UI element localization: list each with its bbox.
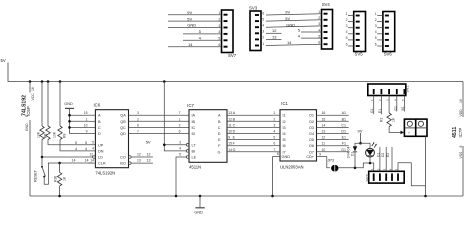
svg-text:8: 8 (277, 152, 279, 156)
IC7 BI pin 4 bubble (186, 150, 189, 153)
svg-text:9V: 9V (187, 10, 192, 15)
svg-text:ID: ID (192, 132, 196, 136)
svg-text:IC6P: IC6P (26, 106, 31, 116)
wire IC6 Q3 to IC7 input (129, 114, 190, 116)
svg-text:4: 4 (92, 147, 94, 151)
svg-text:3: 3 (375, 24, 377, 28)
junction CLR net / R36 top (58, 162, 61, 165)
svg-text:D1: D1 (341, 130, 346, 134)
power symbol IC6P (74LS192 supply) VCC pin 16 (29, 82, 31, 93)
svg-text:14: 14 (72, 159, 76, 163)
svg-text:O1: O1 (309, 114, 314, 118)
svg-text:2: 2 (137, 117, 139, 121)
IC6 LD pin 11 bubble (93, 156, 96, 159)
ground symbol bottom center (199, 195, 202, 198)
wire IC7 LE pin 5 to GND rail (186, 156, 189, 159)
svg-text:15: 15 (228, 142, 232, 146)
wire 9V down (360, 133, 362, 143)
svg-text:4: 4 (179, 147, 181, 151)
svg-text:4: 4 (273, 130, 275, 134)
svg-text:2: 2 (375, 18, 377, 22)
svg-text:D1: D1 (351, 152, 355, 156)
svg-text:13: 13 (147, 159, 151, 163)
svg-text:R2: R2 (379, 118, 383, 122)
wire net C IC7 pin 11 to IC1 pin 3 (227, 126, 273, 128)
svg-text:5: 5 (375, 36, 377, 40)
svg-text:B1: B1 (342, 117, 346, 121)
svg-text:VSS: VSS (459, 151, 463, 159)
svg-text:9V: 9V (285, 10, 290, 15)
wire SV1 pin5 net B1 (403, 96, 405, 112)
svg-text:5: 5 (346, 36, 348, 40)
svg-text:O6: O6 (309, 144, 314, 148)
svg-text:F1: F1 (342, 142, 346, 146)
svg-text:I6: I6 (283, 144, 286, 148)
wire stub net 13 at SV3 pin2 (266, 38, 282, 40)
connector SV4 (322, 10, 333, 50)
svg-text:14: 14 (287, 40, 292, 45)
svg-text:BI: BI (192, 149, 196, 153)
IC6 pin 10 stub (88, 126, 95, 128)
IC6 pin 1 stub (88, 120, 95, 122)
svg-text:6: 6 (262, 11, 264, 15)
svg-text:10: 10 (228, 130, 232, 134)
svg-text:11: 11 (228, 123, 232, 127)
svg-text:2: 2 (273, 117, 275, 121)
svg-text:12: 12 (147, 153, 151, 157)
svg-text:A1: A1 (342, 111, 346, 115)
svg-text:16: 16 (322, 111, 326, 115)
svg-text:11: 11 (322, 142, 326, 146)
svg-text:14: 14 (85, 159, 89, 163)
svg-text:4: 4 (75, 147, 77, 151)
wire stub net 12 from IC6 CO pin 12 (129, 156, 132, 159)
wire net B1 from IC1 pin 15 (317, 120, 349, 122)
wire 5V rail (8, 63, 463, 82)
svg-text:C: C (98, 126, 101, 130)
svg-text:6: 6 (346, 42, 348, 46)
svg-text:5: 5 (262, 17, 264, 21)
svg-text:9: 9 (319, 152, 321, 156)
power symbol IC6P GND pin 8 wire down to rail (29, 120, 31, 196)
wire SV1 pin4 net C1 (396, 96, 398, 112)
connector SV5 (354, 12, 366, 52)
wire net 5 to SV7 pin 4 (183, 33, 222, 35)
svg-text:4: 4 (375, 30, 377, 34)
wire R9 bottom to IC6 LD pin 11 (42, 156, 93, 158)
IC7 LT pin 3 bubble (186, 144, 189, 147)
resistor R36 1K (59, 163, 61, 172)
wire IC6 Q2 to IC7 input (129, 120, 190, 122)
svg-text:DN: DN (98, 149, 104, 153)
svg-text:I5: I5 (283, 138, 286, 142)
svg-text:CLR: CLR (98, 162, 106, 166)
op IC6 74LS192N counter (95, 110, 128, 168)
svg-text:SV5: SV5 (355, 52, 364, 57)
svg-text:7: 7 (137, 130, 139, 134)
svg-text:IC1: IC1 (281, 101, 288, 106)
wire net C1 from IC1 pin 14 (317, 126, 349, 128)
svg-text:5: 5 (92, 140, 94, 144)
junction on 5V rail at R10 (47, 80, 50, 83)
terminal block X1 (404, 119, 427, 136)
svg-text:QC: QC (120, 126, 126, 130)
svg-text:SV1: SV1 (406, 85, 410, 92)
svg-text:16: 16 (459, 99, 463, 103)
svg-text:D: D (218, 132, 221, 136)
svg-text:SV4: SV4 (322, 2, 331, 7)
svg-text:VDD: VDD (459, 109, 463, 117)
op IC7 4511N decoder (189, 110, 227, 163)
wire net E IC7 pin 9 to IC1 pin 5 (227, 139, 273, 141)
wire net A1 from IC1 pin 16 (317, 114, 349, 116)
svg-text:1K: 1K (391, 117, 395, 122)
IC1 input stub (273, 145, 280, 147)
junction on 5V rail at IC6P (29, 80, 32, 83)
svg-text:I7: I7 (283, 150, 286, 154)
svg-text:1: 1 (179, 117, 181, 121)
svg-text:CD+: CD+ (306, 155, 314, 159)
wire net 5V SV3 pin5 to SV4 pin2 (266, 20, 322, 21)
svg-text:6: 6 (179, 130, 181, 134)
junction on 5V rail at R8 (59, 80, 62, 83)
wire SV1 pin1 net G1 (373, 96, 375, 115)
svg-text:2: 2 (179, 123, 181, 127)
wire SV2 pin2 with net label (379, 147, 381, 171)
svg-text:G: G (218, 150, 221, 154)
svg-text:5V: 5V (146, 140, 151, 145)
svg-text:2: 2 (262, 36, 264, 40)
svg-text:1K: 1K (63, 176, 67, 181)
svg-text:14: 14 (188, 42, 193, 47)
svg-text:D: D (98, 132, 101, 136)
svg-text:1: 1 (273, 111, 275, 115)
svg-text:2: 2 (346, 18, 348, 22)
svg-text:1: 1 (86, 117, 88, 121)
wire terminal X1-2 to GND rail (425, 136, 427, 196)
svg-text:D: D (233, 130, 236, 134)
svg-text:74LS192N: 74LS192N (95, 171, 115, 176)
svg-text:10K: 10K (37, 131, 41, 138)
svg-text:C1: C1 (376, 153, 380, 157)
svg-text:B1: B1 (401, 106, 405, 110)
svg-text:3: 3 (262, 30, 264, 34)
svg-text:LD: LD (98, 156, 103, 160)
svg-text:GND: GND (194, 210, 203, 214)
svg-text:D2: D2 (381, 153, 385, 157)
wire net B IC7 pin 12 to IC1 pin 2 (227, 120, 273, 122)
wire stub net 4 at SV4 pin5 (301, 37, 322, 39)
svg-text:12: 12 (137, 153, 141, 157)
svg-text:E2: E2 (386, 153, 390, 157)
svg-text:8: 8 (459, 146, 463, 148)
IC1 input stub (273, 139, 280, 141)
svg-text:QA: QA (120, 114, 126, 118)
power symbol IC7P (4511 supply) VDD pin 16 (462, 82, 464, 118)
svg-text:IC7P: IC7P (458, 128, 463, 138)
svg-text:G1: G1 (370, 108, 374, 113)
svg-text:12: 12 (228, 117, 232, 121)
junction R36 bottom on GND rail (58, 195, 61, 198)
wire net 9V SV3 pin6 to SV4 pin1 (266, 14, 322, 15)
wire net E1 from IC1 pin 12 (317, 139, 349, 141)
wire GND bottom rail (30, 195, 463, 197)
wire GND to IC6 pin B (70, 120, 89, 122)
svg-text:11: 11 (89, 153, 93, 157)
svg-text:GND: GND (282, 155, 291, 159)
svg-text:SV7: SV7 (228, 53, 237, 58)
svg-text:I4: I4 (283, 132, 286, 136)
wire net D IC7 pin 10 to IC1 pin 4 (227, 133, 273, 135)
IC1 input stub (273, 133, 280, 135)
svg-text:13: 13 (228, 111, 232, 115)
wire net 5V to SV7 pin 2 (168, 20, 222, 22)
svg-text:R8: R8 (62, 134, 66, 138)
svg-text:10: 10 (322, 148, 326, 152)
svg-text:5V: 5V (285, 16, 290, 21)
connector SV2 (369, 171, 405, 183)
wire SV2 pin4 with net label (391, 147, 393, 171)
svg-text:7: 7 (179, 111, 181, 115)
svg-text:5V: 5V (1, 58, 6, 63)
IC1 input stub (273, 120, 280, 122)
svg-text:C1: C1 (341, 123, 346, 127)
svg-text:6: 6 (137, 123, 139, 127)
wire net G IC7 pin 14 to IC1 pin 7 (227, 151, 273, 153)
svg-text:12: 12 (272, 28, 277, 33)
wire R10 bottom to IC6 UP pin 5 (48, 140, 95, 145)
svg-text:13: 13 (137, 159, 141, 163)
resistor R8 10K (59, 82, 61, 127)
svg-text:15: 15 (84, 111, 88, 115)
wire net G1 from IC1 pin 10 (317, 151, 349, 153)
power symbol IC7P VSS pin 8 wire down to rail (462, 146, 464, 196)
svg-text:CO: CO (120, 156, 126, 160)
svg-text:4: 4 (262, 24, 264, 28)
wire IC6 Q6 to IC7 input (129, 126, 190, 128)
svg-text:SV2: SV2 (366, 174, 370, 181)
connector SV1 (368, 84, 406, 96)
svg-text:LE: LE (192, 156, 197, 160)
svg-text:10K: 10K (53, 131, 57, 138)
svg-text:9: 9 (86, 130, 88, 134)
svg-text:15: 15 (322, 117, 326, 121)
wire R8 bottom to IC6 DN pin 4 (60, 140, 95, 151)
op IC1 ULN2003AN driver (280, 110, 317, 161)
svg-text:3: 3 (137, 111, 139, 115)
svg-text:GND: GND (286, 22, 295, 27)
wire GND to IC6 pin D (70, 133, 89, 135)
svg-text:E1: E1 (342, 136, 346, 140)
diode D1 1N4004 (355, 143, 361, 146)
svg-text:GND: GND (25, 123, 29, 131)
svg-text:C1: C1 (393, 106, 397, 110)
svg-text:6: 6 (375, 42, 377, 46)
svg-text:JP3: JP3 (328, 159, 335, 163)
svg-text:O3: O3 (309, 126, 314, 130)
svg-text:7: 7 (273, 148, 275, 152)
svg-text:13: 13 (272, 34, 277, 39)
junction on 5V rail at R9 (41, 80, 44, 83)
wire stub net 5 at SV4 pin4 (301, 31, 322, 33)
IC6 pin 9 stub (88, 133, 95, 135)
svg-text:GND: GND (187, 23, 196, 28)
svg-text:C: C (218, 126, 221, 130)
connector SV7 (222, 10, 234, 53)
svg-text:O2: O2 (309, 120, 314, 124)
svg-text:I2: I2 (283, 120, 286, 124)
svg-text:IC6: IC6 (94, 103, 101, 108)
IC1 input stub (273, 151, 280, 153)
svg-text:3: 3 (346, 24, 348, 28)
svg-text:R9: R9 (43, 134, 47, 138)
wire net F IC7 pin 15 to IC1 pin 6 (227, 145, 273, 147)
junction D1 bottom (354, 167, 357, 170)
svg-text:1: 1 (262, 42, 264, 46)
wire GND to IC6 pin A (70, 114, 89, 116)
svg-text:QD: QD (120, 132, 126, 136)
svg-text:UP: UP (98, 143, 104, 147)
svg-text:IC7: IC7 (187, 103, 194, 108)
wire IC1 CD+ pin 9 (317, 156, 327, 158)
svg-text:6: 6 (273, 142, 275, 146)
svg-text:3: 3 (273, 123, 275, 127)
resistor R2 1K on SV1 pin3 (388, 96, 390, 114)
svg-text:G: G (233, 148, 236, 152)
svg-text:O7: O7 (309, 150, 314, 154)
IC6 CLR pin 14 stub (88, 162, 95, 164)
wire SV2 pin5 to GND rail (398, 163, 426, 186)
resistor R9 10K (41, 82, 43, 127)
wire net GND to SV7 pin 3 (168, 27, 222, 29)
svg-text:O4: O4 (309, 132, 314, 136)
svg-text:IA: IA (192, 114, 196, 118)
IC6 pin 15 stub (88, 114, 95, 116)
svg-text:VCC: VCC (31, 93, 35, 101)
svg-text:14: 14 (90, 159, 94, 163)
svg-text:R36: R36 (54, 176, 58, 182)
svg-text:SV6: SV6 (384, 52, 393, 57)
svg-text:ULN2003AN: ULN2003AN (280, 165, 304, 170)
wire switch bottom to CLR net (44, 163, 92, 184)
LED LED1 (361, 143, 371, 148)
IC1 input stub (273, 126, 280, 128)
svg-text:1: 1 (375, 12, 377, 16)
wire net D1 from IC1 pin 13 (317, 133, 349, 135)
wire net A IC7 pin 13 to IC1 pin 1 (227, 114, 273, 116)
wire IC6 Q7 to IC7 input (129, 133, 190, 135)
svg-text:5: 5 (273, 136, 275, 140)
svg-text:BO: BO (120, 162, 126, 166)
svg-text:16: 16 (31, 87, 35, 91)
svg-text:4: 4 (85, 147, 87, 151)
resistor R10 10K (47, 82, 49, 127)
svg-text:10: 10 (84, 123, 88, 127)
connector SV6 (383, 12, 395, 52)
wire stub net 12 at SV3 pin3 (266, 32, 282, 34)
svg-text:C: C (233, 123, 236, 127)
svg-text:4511N: 4511N (189, 165, 201, 170)
wire net 9V to SV7 pin 1 (168, 14, 222, 16)
svg-text:5: 5 (85, 141, 87, 145)
svg-text:LT: LT (192, 143, 197, 147)
svg-text:1: 1 (346, 12, 348, 16)
svg-text:13: 13 (322, 130, 326, 134)
svg-text:I1: I1 (283, 114, 286, 118)
svg-text:SV3: SV3 (249, 6, 258, 11)
LED arrows (372, 143, 374, 146)
junction LED bottom (369, 162, 372, 165)
svg-text:I3: I3 (283, 126, 286, 130)
wire R2 to terminal X1-1 (389, 127, 400, 133)
svg-text:E1: E1 (378, 109, 382, 113)
wire net F1 from IC1 pin 11 (317, 145, 349, 147)
wire net GND SV3 pin4 to SV4 pin3 (266, 26, 322, 27)
svg-text:3: 3 (179, 140, 181, 144)
svg-text:8: 8 (25, 115, 29, 117)
wire net 14 to SV7 pin 6 (168, 46, 222, 48)
wire SV1 pin2 net E1 (380, 96, 382, 115)
svg-text:9: 9 (228, 136, 230, 140)
IC1 input stub (273, 114, 280, 116)
svg-text:5: 5 (75, 141, 77, 145)
svg-text:G1: G1 (341, 148, 346, 152)
svg-text:4: 4 (346, 30, 348, 34)
wire stub net 13 from IC6 BO pin 13 (129, 162, 132, 165)
wire net 4 to SV7 pin 5 (183, 39, 222, 41)
svg-text:O5: O5 (309, 138, 314, 142)
svg-text:5V: 5V (187, 16, 192, 21)
junction on 5V rail at IC7 LT/BI feed (163, 80, 166, 83)
wire JP3 to D1/LED bottoms (339, 163, 374, 171)
connector SV3 (250, 11, 261, 51)
svg-text:5: 5 (179, 153, 181, 157)
svg-text:RESET: RESET (33, 169, 37, 182)
wire SV2 pin3 with net label (385, 147, 387, 171)
svg-text:9V: 9V (358, 128, 363, 133)
svg-text:12: 12 (322, 136, 326, 140)
svg-text:14: 14 (228, 148, 232, 152)
svg-text:QB: QB (120, 120, 126, 124)
svg-text:GND: GND (64, 102, 73, 106)
wire net 14 SV3 pin1 to SV4 pin6 (266, 44, 322, 45)
svg-text:IC: IC (192, 126, 196, 130)
wire IC1 GND pin 8 to GND rail (273, 156, 281, 158)
svg-text:IB: IB (192, 120, 196, 124)
wire GND to IC6 pin C (70, 126, 89, 128)
switch S1 RESET (41, 157, 43, 166)
svg-text:14: 14 (322, 123, 326, 127)
